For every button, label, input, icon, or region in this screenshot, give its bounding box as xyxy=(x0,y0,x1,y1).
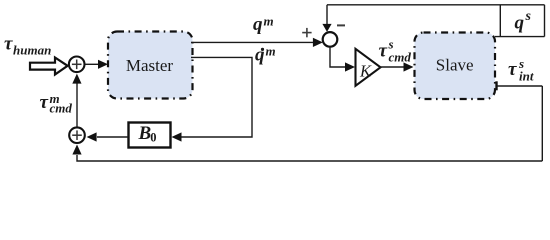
svg-text:B: B xyxy=(138,123,152,144)
svg-text:cmd: cmd xyxy=(50,101,73,116)
wire q^m : Master to comparator S3 xyxy=(191,41,313,43)
wire tau^s_int into Slave and down to bottom feedback xyxy=(495,81,497,90)
node label q^m xyxy=(253,14,274,36)
wire top feedback q^s into comparator xyxy=(326,5,328,25)
svg-text:K: K xyxy=(359,62,372,81)
wire B0 to summing junction S2 xyxy=(97,136,128,138)
node label tau^s_cmd xyxy=(379,37,412,65)
node label qdot^m xyxy=(255,44,276,66)
Slave block xyxy=(415,33,496,100)
wire K to Slave (tau^s_cmd) xyxy=(380,66,404,68)
wire comparator down and into gain K xyxy=(330,47,346,67)
svg-text:0: 0 xyxy=(150,130,156,144)
wire S1 to Master with arrowhead xyxy=(85,63,98,65)
svg-text:τ: τ xyxy=(508,59,517,80)
summing junction S2 (command torque sum) xyxy=(69,127,85,143)
node label tau^m_cmd xyxy=(40,91,73,116)
plus sign at comparator input xyxy=(302,28,311,37)
svg-text:s: s xyxy=(525,9,532,24)
node label tau_human xyxy=(4,34,51,58)
svg-text:τ: τ xyxy=(4,34,13,55)
Master block xyxy=(108,32,193,99)
wire S2 up into S1 xyxy=(76,84,78,127)
svg-text:Slave: Slave xyxy=(436,56,474,75)
node label q^s xyxy=(515,9,532,34)
svg-text:τ: τ xyxy=(40,92,49,113)
block B0 xyxy=(129,123,171,148)
svg-text:cmd: cmd xyxy=(389,50,412,65)
svg-text:Master: Master xyxy=(126,56,174,75)
gain triangle K xyxy=(356,49,381,86)
minus sign at comparator feedback input xyxy=(337,24,345,26)
svg-text:τ: τ xyxy=(379,41,388,62)
node label tau^s_int xyxy=(508,56,534,84)
input hollow arrow (tau_human) xyxy=(30,58,68,75)
summing junction S1 (master torque sum) xyxy=(69,57,85,73)
svg-text:q: q xyxy=(255,45,265,66)
svg-text:human: human xyxy=(13,43,51,58)
svg-text:m: m xyxy=(266,44,276,59)
svg-text:m: m xyxy=(264,14,274,29)
svg-text:int: int xyxy=(519,69,534,84)
svg-text:q: q xyxy=(253,14,263,35)
wire qdot^m : Master right, down, left into B0 xyxy=(182,57,253,137)
comparator circle S3 xyxy=(323,32,338,47)
wire bottom feedback up into S2 xyxy=(77,155,542,161)
svg-text:q: q xyxy=(515,13,525,34)
